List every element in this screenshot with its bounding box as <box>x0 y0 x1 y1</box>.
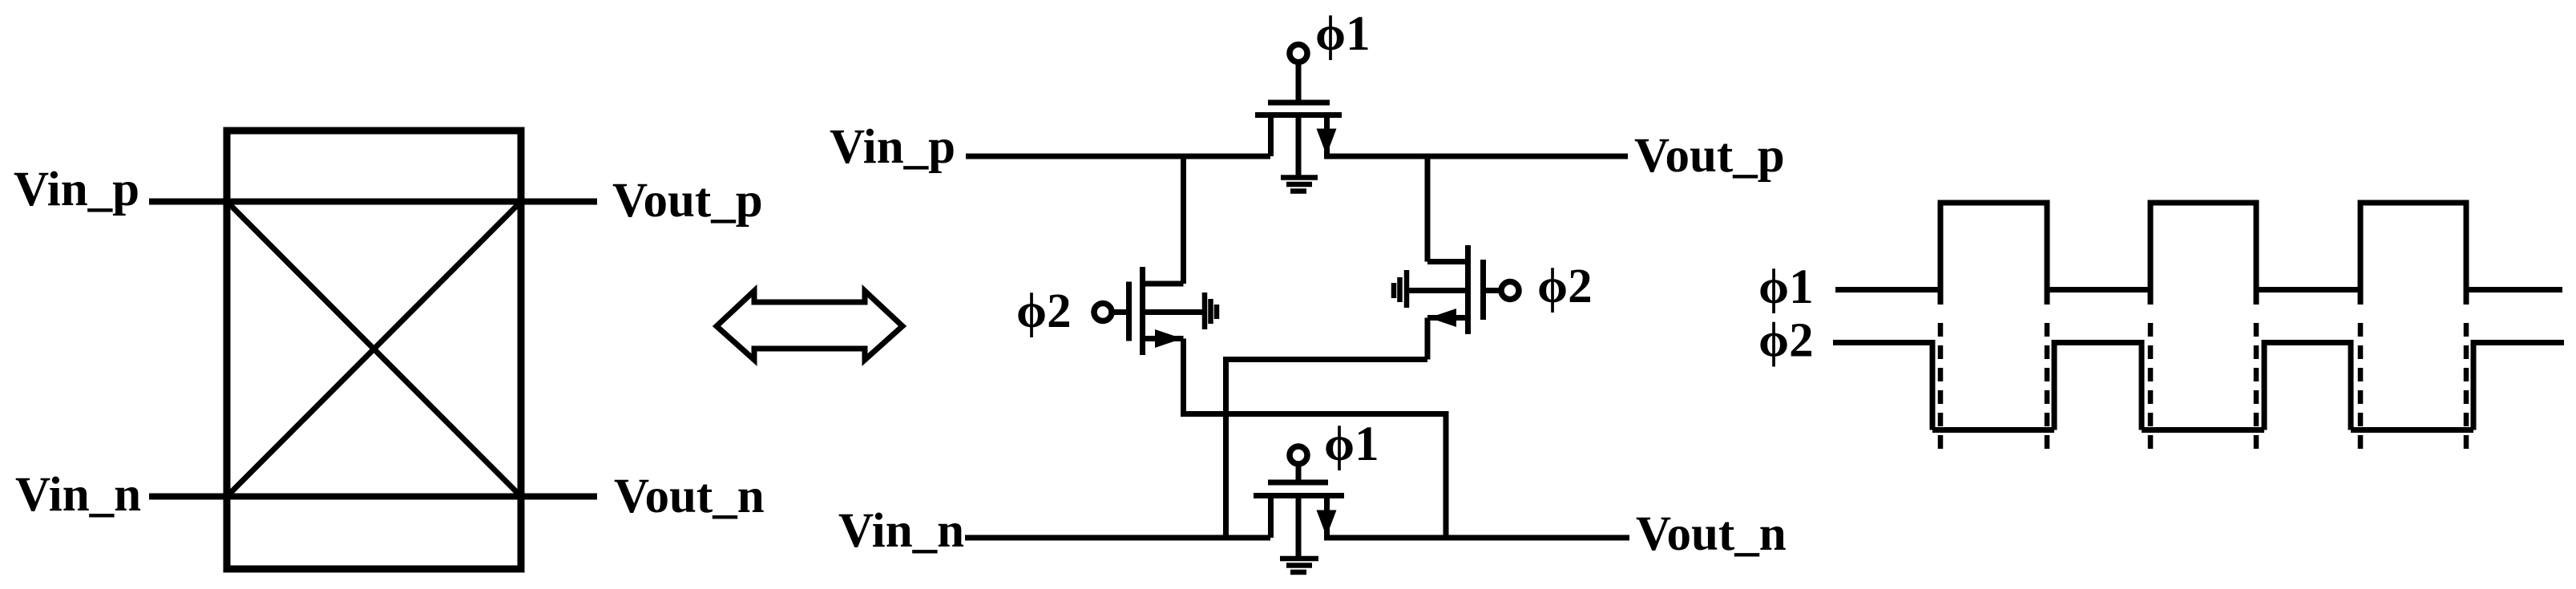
M2 source wire horizontal <box>1143 336 1184 341</box>
M3 source arrow <box>1429 309 1456 327</box>
M4 gate bar <box>1268 480 1328 486</box>
phi2 low segment 2 <box>2142 427 2264 433</box>
wire Vin_n (left box) <box>149 494 597 500</box>
waveform phi1 <box>1835 203 2562 305</box>
svg-text:Vin_n: Vin_n <box>838 504 964 558</box>
M1 source leg <box>1268 115 1274 157</box>
M3 bulk wire <box>1408 288 1468 293</box>
M1 gate wire <box>1296 60 1302 103</box>
dashed guide edge 3 <box>2148 323 2154 450</box>
phi1 low segment 2 <box>2256 287 2360 292</box>
dashed guide edge 6 <box>2464 323 2469 450</box>
phi2 low segment 3 <box>2351 427 2473 433</box>
M4 gate wire <box>1296 462 1302 482</box>
double-headed arrow <box>717 291 902 360</box>
phi2 high segment 1 <box>2054 343 2142 430</box>
phi1 pulse 1 <box>1940 203 2047 305</box>
M1 gate bar <box>1268 100 1330 106</box>
M3 source wire vertical <box>1425 318 1431 360</box>
M4 bulk ground <box>1280 559 1318 572</box>
M3 source wire horizontal <box>1427 315 1468 321</box>
svg-text:Vin_n: Vin_n <box>15 468 141 522</box>
svg-text:ϕ1: ϕ1 <box>1315 7 1371 61</box>
wire M1 drain to Vout_p <box>1324 154 1628 159</box>
wire Vin_n to M4 source <box>965 535 1270 541</box>
transistor M4 (bottom series NMOS, clock phi1) <box>1254 446 1344 557</box>
svg-text:ϕ1: ϕ1 <box>1758 260 1814 314</box>
svg-text:ϕ2: ϕ2 <box>1537 260 1593 313</box>
phi2 low segment 1 <box>1932 427 2054 433</box>
dashed guide edge 2 <box>2045 323 2050 450</box>
wire M4 drain to Vout_n <box>1324 535 1629 541</box>
M3 bulk ground (rotated) <box>1394 270 1407 308</box>
svg-text:Vout_n: Vout_n <box>1636 507 1787 561</box>
svg-text:Vout_n: Vout_n <box>614 470 765 523</box>
phi1 pulse 3 <box>2360 203 2466 305</box>
transistor M3 (right cross NMOS, clock phi2) <box>1408 154 1519 360</box>
M2 source wire vertical <box>1181 339 1186 414</box>
chopper box <box>227 131 521 569</box>
M1 bulk wire <box>1296 115 1302 178</box>
M4 channel bar <box>1254 493 1344 498</box>
M1 drain arrow <box>1317 129 1337 155</box>
svg-text:Vin_p: Vin_p <box>14 163 139 216</box>
M4 drain leg <box>1324 496 1330 536</box>
M4 drain arrow <box>1317 510 1337 537</box>
dashed guide edge 5 <box>2358 323 2364 450</box>
wire Vin_p (left box) <box>149 199 597 205</box>
M2 gate terminal circle <box>1094 304 1112 321</box>
svg-text:Vout_p: Vout_p <box>1634 129 1785 183</box>
phi1 low segment 0 <box>1835 287 1940 292</box>
phi1 low segment 1 <box>2047 287 2150 292</box>
M2 bulk wire <box>1143 309 1203 315</box>
M3 channel bar <box>1465 245 1471 334</box>
M3 gate wire <box>1484 288 1504 293</box>
wire cross-couple M2 vertical down to Vout_n <box>1443 411 1449 538</box>
transistor M1 (top series NMOS, clock phi1) <box>1255 45 1342 178</box>
phi2 high segment 2 <box>2264 343 2351 430</box>
M2 drain wire vertical to Vin_p <box>1181 154 1186 284</box>
waveform phi2 <box>1833 343 2564 430</box>
phi2 high segment 3 <box>2473 343 2564 430</box>
M3 gate terminal circle <box>1501 282 1519 300</box>
M2 channel bar <box>1140 267 1145 355</box>
wire cross diagonal 2 <box>227 202 521 497</box>
dashed guide edge 1 <box>1938 323 1944 450</box>
M4 bulk wire <box>1296 496 1302 558</box>
wire Vin_p to M1 source <box>966 154 1270 159</box>
wire cross-couple M3 vertical down to Vin_n <box>1223 357 1229 538</box>
phi1 low segment 3 <box>2466 287 2562 292</box>
M4 source leg <box>1268 496 1274 539</box>
M2 gate bar <box>1126 282 1132 341</box>
M1 channel bar <box>1255 112 1342 118</box>
wire cross-couple M3 source to Vin_n (horizontal) <box>1226 357 1428 362</box>
M1 gate terminal circle <box>1290 45 1307 63</box>
M3 drain wire horizontal <box>1427 259 1468 264</box>
svg-text:ϕ2: ϕ2 <box>1016 284 1072 338</box>
wire cross-couple M2 source to Vout_n (horizontal) <box>1181 411 1446 417</box>
phi2 high segment 0 <box>1833 343 1932 430</box>
M3 gate bar <box>1480 260 1486 320</box>
wire cross diagonal 1 <box>227 202 521 497</box>
M2 gate wire <box>1109 309 1129 315</box>
M2 bulk ground (rotated) <box>1205 292 1217 329</box>
M1 bulk ground <box>1281 178 1318 192</box>
phi1 pulse 2 <box>2150 203 2256 305</box>
svg-text:Vin_p: Vin_p <box>830 120 955 174</box>
svg-text:Vout_p: Vout_p <box>612 174 763 228</box>
svg-text:ϕ2: ϕ2 <box>1758 314 1814 368</box>
M2 source arrow <box>1155 329 1182 348</box>
M3 drain wire vertical from Vin_p/Vout_p wire <box>1425 154 1431 262</box>
dashed clock-edge guide lines <box>1940 323 2466 450</box>
svg-text:ϕ1: ϕ1 <box>1324 418 1379 471</box>
M2 drain wire horizontal <box>1143 281 1184 287</box>
dashed guide edge 4 <box>2254 323 2259 450</box>
M4 gate terminal circle <box>1290 446 1307 464</box>
M1 drain leg <box>1324 115 1330 155</box>
